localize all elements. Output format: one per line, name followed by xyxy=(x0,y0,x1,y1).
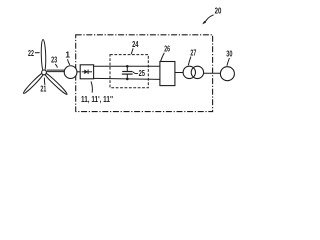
leader 1 xyxy=(68,59,70,65)
generator G / machine 1 xyxy=(64,66,77,79)
svg-text:24: 24 xyxy=(132,39,139,49)
lower-right blade 21 xyxy=(43,71,68,95)
leader 27 xyxy=(188,57,191,66)
node: bottom rail junction xyxy=(126,78,129,81)
DC link top rail xyxy=(94,65,160,67)
svg-text:11, 11', 11'': 11, 11', 11'' xyxy=(81,94,113,104)
converter dashed box 24 xyxy=(110,55,148,88)
rectifier box 11 xyxy=(80,65,93,79)
transformer 27 (two overlapping circles) xyxy=(183,66,195,78)
capacitor 25 xyxy=(126,66,128,71)
leader 26 xyxy=(161,53,165,62)
hub xyxy=(42,70,47,75)
leader 21 xyxy=(43,78,46,85)
lower-left blade xyxy=(22,71,45,94)
wire transformer to grid xyxy=(204,72,221,74)
wind turbine rotor: upper blade 22 xyxy=(41,39,46,72)
svg-text:22: 22 xyxy=(28,48,34,58)
diode symbol inside 11 xyxy=(82,71,92,73)
leader 25 xyxy=(133,72,138,74)
leader 24 xyxy=(131,48,133,54)
node: top rail junction xyxy=(126,65,129,68)
leader 23 xyxy=(55,64,57,68)
system boundary box 20 (dash-dot) xyxy=(76,35,213,112)
leader 22 xyxy=(35,52,40,54)
svg-text:30: 30 xyxy=(226,48,232,58)
svg-text:26: 26 xyxy=(164,44,170,54)
DC link bottom rail xyxy=(94,78,160,79)
svg-text:20: 20 xyxy=(215,6,222,16)
wire generator to rectifier xyxy=(77,71,80,73)
shaft 23 (double line) xyxy=(47,69,65,71)
arrow leader for 20 xyxy=(203,15,213,23)
svg-text:27: 27 xyxy=(190,47,196,57)
wire 26 to transformer xyxy=(175,72,183,74)
svg-text:1: 1 xyxy=(65,50,70,60)
grid node 30 xyxy=(220,67,234,81)
leader 11 xyxy=(91,81,92,92)
leader 30 xyxy=(227,58,230,66)
svg-text:23: 23 xyxy=(51,55,57,65)
svg-text:25: 25 xyxy=(139,68,146,78)
inverter box 26 xyxy=(160,62,175,86)
svg-text:21: 21 xyxy=(40,84,46,94)
